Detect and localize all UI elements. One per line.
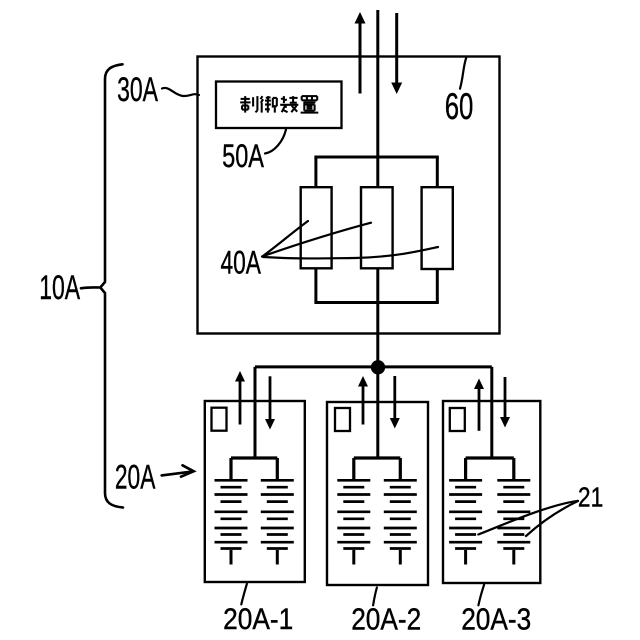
svg-text:21: 21 [578,482,603,513]
svg-text:60: 60 [445,85,474,127]
svg-text:20A-1: 20A-1 [223,602,293,635]
svg-text:20A-2: 20A-2 [351,603,421,637]
svg-text:30A: 30A [117,72,158,110]
svg-text:40A: 40A [221,245,262,281]
svg-text:20A: 20A [115,459,156,497]
svg-text:10A: 10A [39,270,80,308]
svg-text:20A-3: 20A-3 [461,603,531,637]
svg-text:50A: 50A [222,138,264,175]
